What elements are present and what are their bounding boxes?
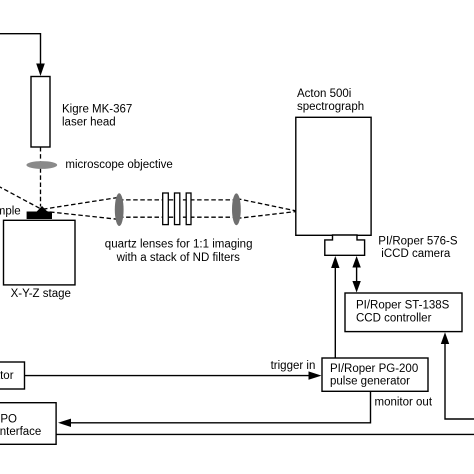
wire: dashed laser beam from laser head to sample — [40, 147, 42, 207]
quartz lens 2 (gray ellipse) — [232, 193, 241, 225]
svg-text:X-Y-Z stage: X-Y-Z stage — [11, 288, 71, 300]
label: PI/Roper 576-S iCCD camera — [378, 235, 458, 260]
label: Acton 500i spectrograph — [297, 88, 364, 113]
spectrograph box — [296, 117, 371, 235]
svg-text:CCD controller: CCD controller — [356, 312, 432, 324]
wire: cable into laser head with down arrow — [0, 34, 45, 76]
svg-text:Kigre MK-367: Kigre MK-367 — [62, 104, 132, 116]
laser head box — [31, 77, 50, 148]
svg-text:interface: interface — [0, 426, 41, 438]
svg-text:PI/Roper 576-S: PI/Roper 576-S — [378, 235, 458, 247]
wire: dashed collection beam upper path — [43, 198, 296, 211]
svg-text:quartz lenses for 1:1 imaging: quartz lenses for 1:1 imaging — [105, 238, 253, 250]
wire: double arrow between camera and CCD controller — [352, 256, 360, 293]
wire: line from interface box to right edge — [56, 433, 474, 435]
wire: trigger line from pulse generator up to camera — [331, 256, 339, 358]
svg-text:microscope objective: microscope objective — [65, 159, 172, 171]
svg-text:Acton 500i: Acton 500i — [297, 88, 351, 100]
sample (black) on stage — [27, 206, 52, 219]
microscope objective lens (gray ellipse) — [26, 161, 57, 169]
svg-text:ator: ator — [0, 370, 14, 382]
iCCD camera (stepped outline) — [325, 235, 365, 255]
ND filter 1 — [163, 193, 169, 225]
generator box (cropped at left edge) — [0, 362, 25, 389]
wire: monitor-out line from pulse generator to interface box — [58, 391, 371, 427]
svg-text:iCCD camera: iCCD camera — [381, 248, 451, 260]
label: PI/Roper PG-200 pulse generator — [330, 363, 418, 388]
quartz lens 1 (gray ellipse) — [115, 193, 124, 226]
CCD controller box — [345, 293, 462, 332]
ND filter 2 — [175, 193, 180, 225]
wire: dashed diagonal beam to upper-left — [0, 186, 41, 209]
svg-text:pulse generator: pulse generator — [330, 376, 410, 388]
label: PO interface (cropped words) — [0, 413, 41, 438]
svg-text:sample: sample — [0, 206, 21, 218]
label: Kigre MK-367 laser head — [62, 104, 132, 129]
svg-text:spectrograph: spectrograph — [297, 101, 364, 113]
label: PI/Roper ST-138S CCD controller — [356, 300, 450, 325]
label: quartz lenses for 1:1 imaging with a stack of ND filters — [105, 238, 253, 264]
ND filter 3 — [186, 193, 191, 225]
wire: line from bottom right up into CCD controller — [441, 332, 474, 419]
svg-text:laser head: laser head — [62, 116, 116, 128]
svg-text:monitor out: monitor out — [375, 396, 433, 408]
X-Y-Z stage box — [4, 220, 76, 285]
svg-text:trigger in: trigger in — [271, 360, 316, 372]
wire: trigger-in line from left box to pulse generator — [25, 371, 322, 379]
svg-text:PO: PO — [0, 413, 17, 425]
wire: dashed collection beam lower path — [43, 211, 296, 219]
pulse generator box — [322, 358, 428, 391]
interface box (cropped at left edge) — [0, 403, 56, 445]
svg-text:PI/Roper PG-200: PI/Roper PG-200 — [330, 363, 418, 375]
svg-text:with a stack of ND filters: with a stack of ND filters — [116, 252, 241, 264]
svg-text:PI/Roper ST-138S: PI/Roper ST-138S — [356, 300, 450, 312]
